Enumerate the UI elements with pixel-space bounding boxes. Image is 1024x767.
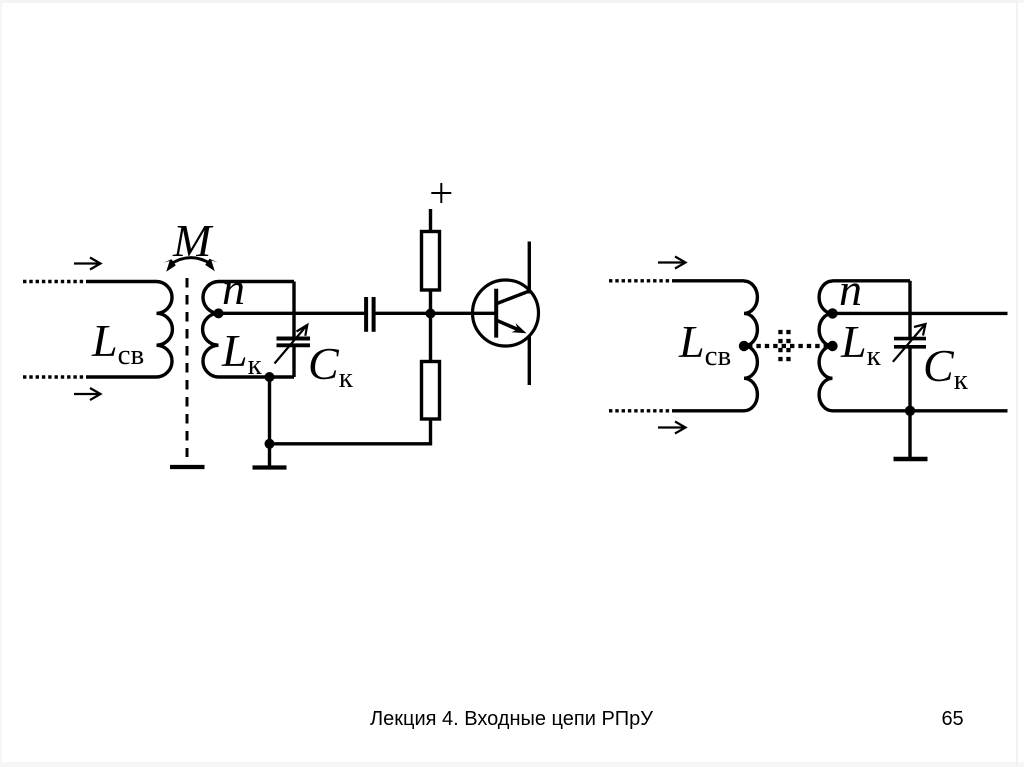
wire: ground rail to resistor R2 (270, 419, 431, 444)
transistor VT1: collector diagonal (497, 291, 529, 304)
power: + supply (431, 183, 451, 203)
resistor R1 (bias, upper) (422, 232, 440, 291)
node: bottom rail junction (right) (905, 406, 915, 416)
wire: tap output rail (right) (833, 312, 1008, 315)
wire: tank right branch upper (292, 282, 295, 337)
svg-text:Лекция 4. Входные цепи РПрУ: Лекция 4. Входные цепи РПрУ (370, 708, 653, 730)
wire: parasitic coupling dotted link (748, 344, 830, 348)
svg-text:n: n (222, 263, 245, 314)
wire: top lead right circuit (solid) (673, 279, 744, 282)
wire: coupling capacitor to base node (376, 312, 497, 315)
transistor VT1: emitter diagonal with arrow (497, 321, 519, 331)
wire: top lead right circuit (dotted) (609, 279, 673, 282)
coupling plane: dashed line (186, 278, 189, 457)
svg-text:65: 65 (941, 708, 963, 730)
node: base bias node (426, 309, 436, 319)
wire: tank bottom to ground rail (268, 377, 271, 466)
inductor Lk (tank coil, left circuit) (203, 282, 219, 378)
wire: tank right branch lower (292, 347, 295, 377)
wire: emitter lead (528, 336, 531, 385)
inductor Lsv (right circuit) (744, 281, 757, 411)
wire: bottom lead right circuit (dotted) (609, 409, 673, 412)
wire: tap rail to coupling capacitor (219, 312, 365, 315)
transistor VT1: circle (473, 280, 539, 346)
wire: resistor R1 to supply (429, 209, 432, 232)
capacitor Ck (left): variable arrow (275, 325, 308, 364)
arrow: input signal top (74, 258, 101, 270)
resistor R2 (bias, lower) (422, 362, 440, 420)
wire: top antenna lead (dotted) (23, 280, 88, 283)
arrow: input signal bottom (74, 388, 101, 400)
wire: Ck branch upper (right) (908, 281, 911, 337)
arrow: curved double arrow under M (164, 258, 218, 272)
wire: bottom lead right circuit (solid) (673, 409, 744, 412)
arrow: input bottom (right circuit) (658, 422, 686, 434)
node: tank bottom junction (265, 372, 275, 382)
wire: node down to resistor R2 (429, 314, 432, 362)
wire: bottom antenna lead (solid) (88, 375, 157, 378)
coupling plane: end bar (170, 465, 205, 469)
capacitor Ck (left, variable): plates (277, 339, 311, 346)
inductor Lsv (coupling coil, left circuit) (157, 282, 173, 378)
ground (right circuit) (894, 457, 928, 462)
node: capacitive coupling tie (left side) (739, 341, 749, 351)
capacitor: parasitic coupling plates (dotted bars) (778, 330, 790, 361)
capacitor Ck (right, variable): plates (894, 339, 926, 347)
node: coil tap junction (214, 308, 224, 318)
inductor Lk (right circuit) (819, 281, 832, 411)
node: tap junction (right) (827, 308, 837, 318)
transistor VT1: base bar (494, 289, 498, 338)
node: ground rail junction (265, 439, 275, 449)
wire: Ck branch lower (right) (908, 348, 911, 457)
wire: tank bottom link (219, 375, 295, 378)
capacitor Ck (right): variable arrow (893, 324, 926, 362)
ground (left circuit) (253, 465, 287, 469)
wire: tank top link (219, 280, 295, 283)
wire: node up to resistor R1 (429, 290, 432, 314)
wire: bottom output rail (right) (833, 409, 1008, 412)
node: capacitive coupling tie (right side) (827, 341, 837, 351)
wire: collector lead (528, 242, 531, 294)
wire: bottom antenna lead (dotted) (23, 375, 88, 378)
wire: top antenna lead (solid) (88, 280, 157, 283)
svg-text:n: n (839, 264, 862, 315)
capacitor C1 (coupling, series): plates (366, 297, 374, 332)
arrow: input top (right circuit) (658, 257, 686, 269)
wire: tank top link (right) (833, 279, 911, 282)
